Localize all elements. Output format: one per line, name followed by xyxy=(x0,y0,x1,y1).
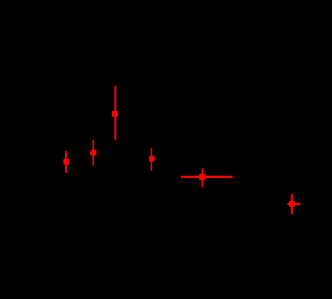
error bar (horizontal, short) of point P3 xyxy=(66,160,69,162)
error bar (vertical) of point P6 xyxy=(291,194,293,214)
error bar (vertical) of point P3 xyxy=(65,151,67,173)
data point P4 xyxy=(149,156,155,162)
error bar (horizontal) of point P6 xyxy=(287,203,300,205)
error bar (vertical) of point P2 xyxy=(92,140,94,166)
error bar (horizontal, short) of point P2 xyxy=(90,152,93,154)
data point P3 xyxy=(63,159,69,165)
data point P6 xyxy=(289,201,295,207)
data point P5 xyxy=(199,174,205,180)
error bar (horizontal) of point P5 xyxy=(181,176,233,178)
error bar (vertical) of point P5 xyxy=(202,168,204,187)
error bar (vertical) of point P1 xyxy=(114,86,116,141)
error bar (vertical) of point P4 xyxy=(151,148,153,171)
data point P2 xyxy=(91,150,97,156)
data point P1 xyxy=(112,111,118,117)
